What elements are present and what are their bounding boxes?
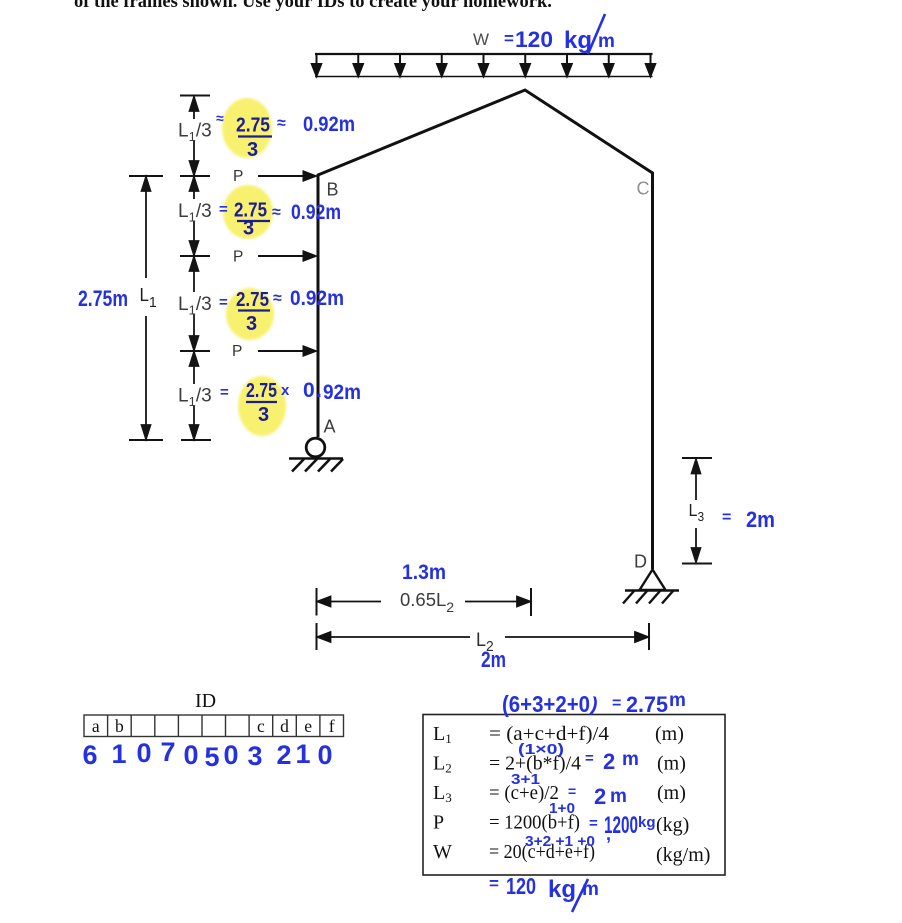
svg-text:B: B bbox=[327, 180, 339, 200]
svg-text:of the frames shown. Use your: of the frames shown. Use your IDs to cre… bbox=[74, 0, 552, 12]
svg-text:0.92m: 0.92m bbox=[290, 287, 344, 310]
svg-text:92m: 92m bbox=[323, 381, 361, 404]
svg-text:≈: ≈ bbox=[272, 204, 281, 221]
svg-text:7: 7 bbox=[160, 737, 175, 767]
svg-text:0: 0 bbox=[317, 740, 332, 770]
svg-text:120: 120 bbox=[506, 873, 536, 899]
svg-text:0: 0 bbox=[183, 740, 198, 770]
svg-text:3: 3 bbox=[247, 139, 258, 161]
svg-text:(m): (m) bbox=[657, 753, 686, 775]
svg-text:(6+3+2+0: (6+3+2+0 bbox=[502, 691, 590, 717]
svg-text:=: = bbox=[585, 750, 594, 767]
svg-text:≈: ≈ bbox=[216, 110, 224, 126]
svg-text:6: 6 bbox=[82, 740, 97, 770]
svg-text:=: = bbox=[504, 29, 514, 48]
svg-text:3: 3 bbox=[247, 741, 262, 771]
svg-text:kg: kg bbox=[548, 876, 576, 903]
svg-text:3+1: 3+1 bbox=[511, 772, 540, 788]
svg-text:=: = bbox=[568, 783, 576, 799]
svg-text:1: 1 bbox=[111, 739, 126, 769]
svg-text:e: e bbox=[304, 716, 312, 736]
svg-text:x: x bbox=[281, 382, 290, 399]
svg-text:L1/3: L1/3 bbox=[178, 294, 212, 318]
svg-text:L1/3: L1/3 bbox=[178, 386, 212, 410]
svg-text:A: A bbox=[324, 417, 336, 437]
svg-text:5: 5 bbox=[204, 742, 219, 772]
svg-text:3: 3 bbox=[258, 404, 269, 426]
svg-text:0: 0 bbox=[136, 738, 151, 768]
svg-text:3+2 +1 +0: 3+2 +1 +0 bbox=[525, 834, 595, 850]
svg-text:2: 2 bbox=[276, 740, 291, 770]
svg-text:2: 2 bbox=[603, 749, 615, 774]
svg-text:(kg/m): (kg/m) bbox=[656, 844, 710, 866]
svg-text:D: D bbox=[634, 552, 647, 572]
svg-text:c: c bbox=[257, 716, 265, 736]
svg-text:m: m bbox=[622, 749, 639, 770]
svg-text:=: = bbox=[612, 695, 621, 712]
svg-text:d: d bbox=[280, 716, 289, 736]
svg-text:f: f bbox=[329, 716, 335, 736]
svg-text:2.75: 2.75 bbox=[236, 289, 269, 311]
svg-text:1.3m: 1.3m bbox=[402, 561, 446, 584]
svg-text:L1/3: L1/3 bbox=[178, 121, 212, 145]
svg-text:m: m bbox=[598, 31, 615, 52]
svg-text:0.92m: 0.92m bbox=[291, 201, 341, 224]
svg-text:120: 120 bbox=[515, 27, 553, 52]
svg-text:2m: 2m bbox=[746, 507, 775, 532]
svg-text:,: , bbox=[606, 824, 611, 844]
svg-text:=: = bbox=[722, 509, 731, 526]
svg-text:L1/3: L1/3 bbox=[178, 201, 212, 225]
svg-text:b: b bbox=[115, 716, 124, 736]
svg-text:W: W bbox=[433, 841, 452, 863]
svg-text:0.92m: 0.92m bbox=[303, 113, 355, 136]
svg-text:P: P bbox=[433, 812, 444, 834]
svg-text:P: P bbox=[233, 168, 243, 185]
svg-text:kg: kg bbox=[638, 814, 656, 831]
svg-text:=: = bbox=[589, 815, 598, 832]
svg-text:(m): (m) bbox=[657, 782, 686, 804]
svg-text:=: = bbox=[489, 874, 499, 893]
svg-text:3: 3 bbox=[246, 313, 257, 335]
svg-text:2m: 2m bbox=[481, 647, 506, 672]
svg-text:.: . bbox=[316, 379, 322, 402]
svg-text:1+0: 1+0 bbox=[549, 801, 575, 817]
svg-text:0: 0 bbox=[223, 740, 238, 770]
svg-text:m: m bbox=[582, 879, 599, 900]
svg-text:m: m bbox=[669, 690, 686, 711]
svg-text:m: m bbox=[610, 786, 627, 807]
svg-text:kg: kg bbox=[564, 27, 592, 54]
svg-text:1: 1 bbox=[295, 739, 310, 769]
svg-text:0: 0 bbox=[303, 379, 315, 402]
svg-text:2.75m: 2.75m bbox=[78, 286, 128, 311]
svg-text:(m): (m) bbox=[655, 723, 684, 745]
svg-text:ID: ID bbox=[195, 690, 216, 712]
svg-text:=: = bbox=[220, 384, 229, 401]
svg-text:C: C bbox=[637, 179, 650, 199]
svg-text:=: = bbox=[219, 294, 228, 311]
svg-text:2.75: 2.75 bbox=[236, 115, 270, 137]
svg-text:2: 2 bbox=[594, 784, 606, 809]
svg-text:≈: ≈ bbox=[273, 290, 282, 307]
svg-text:(kg): (kg) bbox=[656, 814, 689, 836]
svg-text:≈: ≈ bbox=[277, 115, 286, 132]
svg-text:=: = bbox=[219, 201, 228, 218]
svg-text:3: 3 bbox=[243, 218, 254, 240]
svg-text:2.75: 2.75 bbox=[246, 380, 277, 402]
svg-text:W: W bbox=[473, 30, 489, 49]
svg-text:P: P bbox=[233, 249, 243, 266]
svg-text:P: P bbox=[232, 343, 242, 360]
svg-text:2.75: 2.75 bbox=[626, 692, 668, 717]
svg-text:a: a bbox=[92, 716, 100, 736]
svg-text:(1×0): (1×0) bbox=[518, 742, 564, 758]
